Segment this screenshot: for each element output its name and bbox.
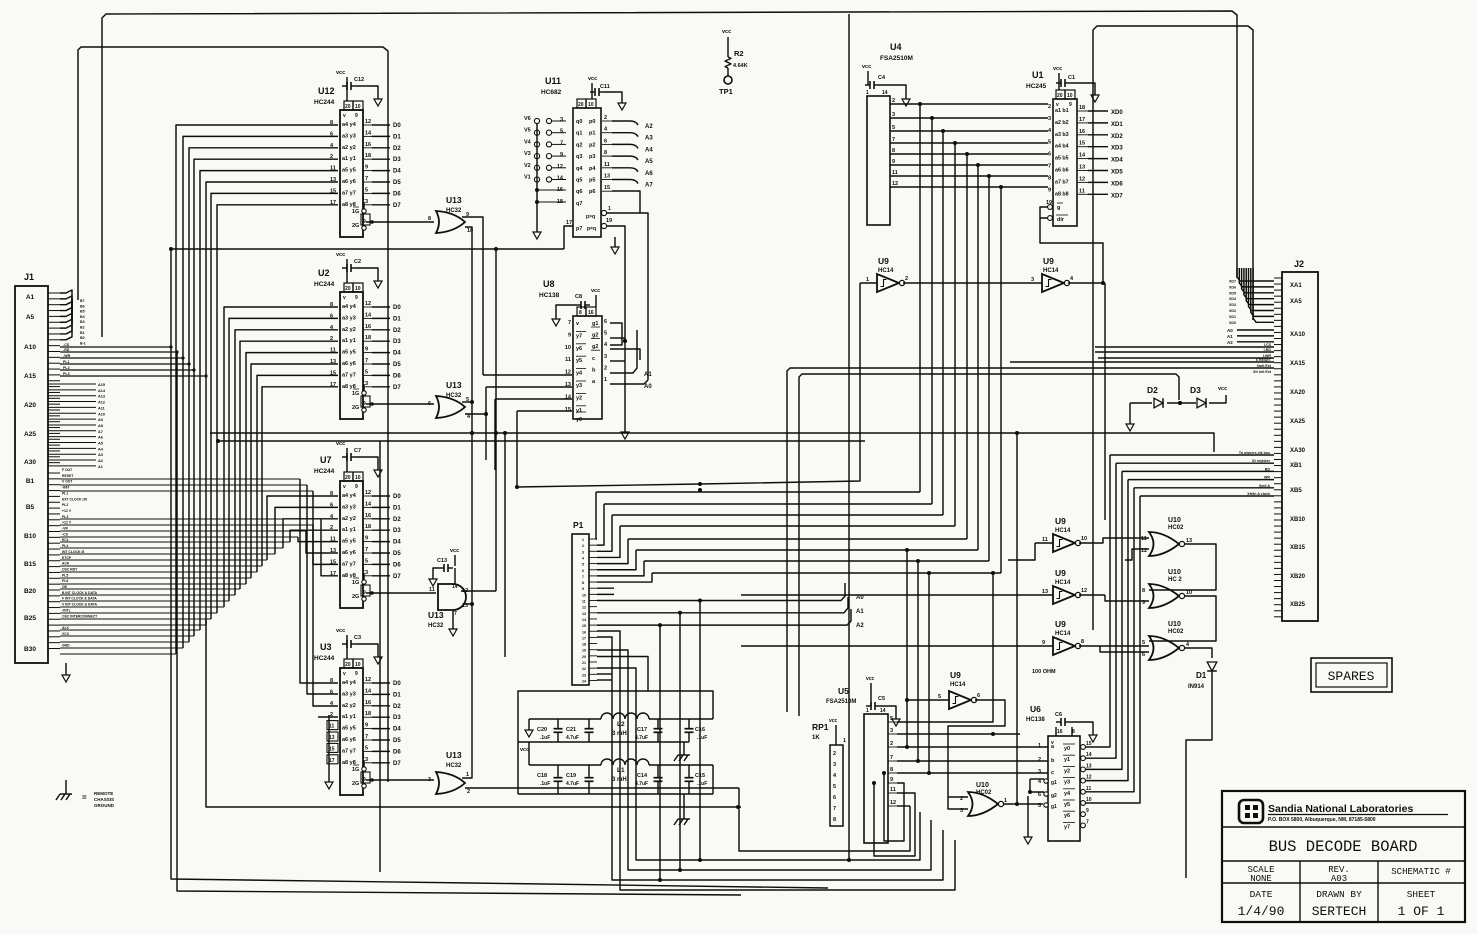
svg-text:18: 18 xyxy=(582,643,586,647)
svg-text:XB25: XB25 xyxy=(1290,602,1306,608)
svg-text:a5 y5: a5 y5 xyxy=(342,168,356,174)
resistor R2 xyxy=(722,29,748,76)
svg-text:10: 10 xyxy=(1081,536,1087,542)
svg-text:D1: D1 xyxy=(393,134,401,140)
svg-text:vcc: vcc xyxy=(336,252,345,258)
svg-text:B0: B0 xyxy=(80,336,85,340)
svg-text:I-CS: I-CS xyxy=(1264,343,1272,347)
svg-text:6: 6 xyxy=(428,401,431,407)
svg-text:D2: D2 xyxy=(393,517,401,523)
svg-text:15: 15 xyxy=(1079,141,1085,147)
U2 output gate wire xyxy=(366,402,434,406)
svg-text:y2: y2 xyxy=(576,395,582,401)
svg-text:18: 18 xyxy=(365,153,371,159)
svg-text:a6 y6: a6 y6 xyxy=(342,737,356,743)
U4 output pins and columns to bottom xyxy=(890,98,1048,573)
svg-text:A0: A0 xyxy=(1227,328,1233,333)
svg-text:1: 1 xyxy=(604,377,607,383)
svg-text:12: 12 xyxy=(365,490,371,496)
svg-text:17: 17 xyxy=(1079,117,1085,123)
svg-text:p4: p4 xyxy=(589,166,596,172)
svg-text:C1: C1 xyxy=(1068,75,1075,81)
svg-text:HC14: HC14 xyxy=(1055,528,1071,534)
svg-text:14: 14 xyxy=(557,176,564,182)
svg-text:a1 y1: a1 y1 xyxy=(342,714,356,720)
svg-text:5: 5 xyxy=(582,563,584,567)
svg-text:1: 1 xyxy=(362,754,365,760)
svg-text:XB10: XB10 xyxy=(1290,517,1306,523)
svg-text:2: 2 xyxy=(604,365,607,371)
svg-text:A03: A03 xyxy=(1331,874,1347,884)
svg-text:SCHEMATIC #: SCHEMATIC # xyxy=(1391,867,1451,877)
svg-text:U11: U11 xyxy=(545,76,561,86)
drawn by cell xyxy=(1312,889,1367,919)
svg-text:U12: U12 xyxy=(318,86,335,96)
svg-text:16: 16 xyxy=(582,630,586,634)
svg-text:14: 14 xyxy=(365,688,372,694)
svg-text:B INT CLOCK & DATA: B INT CLOCK & DATA xyxy=(62,591,98,595)
U11 output wires A2-A7 xyxy=(612,121,653,213)
J2 XB input wires xyxy=(1110,451,1274,496)
svg-text:y5: y5 xyxy=(1064,802,1070,808)
svg-text:D5: D5 xyxy=(393,738,401,744)
svg-text:PL6: PL6 xyxy=(62,579,68,583)
svg-text:U6: U6 xyxy=(1030,704,1041,714)
svg-text:14: 14 xyxy=(1079,153,1086,159)
svg-text:10: 10 xyxy=(1186,590,1192,596)
svg-text:A5: A5 xyxy=(26,314,35,321)
svg-text:1: 1 xyxy=(582,538,584,542)
svg-text:A7: A7 xyxy=(645,183,653,189)
wire top outer loop to J2 xyxy=(102,11,1237,337)
svg-text:1: 1 xyxy=(362,567,365,573)
svg-text:15: 15 xyxy=(604,185,610,191)
svg-text:20: 20 xyxy=(345,662,351,668)
svg-text:5: 5 xyxy=(938,694,941,700)
svg-text:g1: g1 xyxy=(1051,780,1057,786)
svg-text:q3: q3 xyxy=(576,154,582,160)
svg-text:10: 10 xyxy=(1067,93,1073,99)
svg-text:4.7uF: 4.7uF xyxy=(635,781,648,787)
svg-text:A1: A1 xyxy=(644,372,652,378)
svg-text:D3: D3 xyxy=(1190,385,1201,395)
svg-text:V4: V4 xyxy=(524,139,532,145)
svg-text:16: 16 xyxy=(365,142,371,148)
U1 enable pins xyxy=(1040,200,1068,223)
svg-text:y4: y4 xyxy=(1064,791,1071,797)
U3 output gate wire xyxy=(366,778,434,782)
svg-text:DRAWN BY: DRAWN BY xyxy=(1316,889,1362,900)
svg-text:q2: q2 xyxy=(576,142,582,148)
svg-text:y1: y1 xyxy=(1064,757,1070,763)
svg-text:8: 8 xyxy=(890,767,893,773)
svg-text:a7 y7: a7 y7 xyxy=(342,561,356,567)
svg-text:17: 17 xyxy=(329,758,335,764)
svg-text:22: 22 xyxy=(582,667,586,671)
svg-text:D2: D2 xyxy=(393,146,401,152)
svg-text:C17: C17 xyxy=(637,727,647,733)
J1 B-row tiny net labels xyxy=(62,468,98,648)
svg-text:U10: U10 xyxy=(1168,517,1181,524)
filter feed wires xyxy=(518,691,713,794)
svg-text:8: 8 xyxy=(892,148,895,154)
svg-text:17: 17 xyxy=(566,220,572,226)
svg-text:NONE: NONE xyxy=(1250,874,1272,884)
svg-text:5: 5 xyxy=(833,784,836,790)
svg-text:C12: C12 xyxy=(354,77,364,83)
svg-text:C6: C6 xyxy=(1055,712,1062,718)
svg-text:6: 6 xyxy=(833,795,836,801)
svg-text:11: 11 xyxy=(329,724,335,730)
svg-text:1: 1 xyxy=(866,277,869,283)
svg-text:.1uF: .1uF xyxy=(540,735,550,741)
svg-text:D1: D1 xyxy=(393,505,401,511)
diode D2 xyxy=(1126,385,1163,431)
svg-text:q5: q5 xyxy=(576,178,582,184)
svg-text:9: 9 xyxy=(1069,102,1072,108)
svg-text:a5 b5: a5 b5 xyxy=(1055,156,1069,162)
svg-text:A1: A1 xyxy=(856,609,864,615)
connector J1 xyxy=(15,272,48,663)
U12 input staircase xyxy=(176,125,338,654)
svg-text:A2: A2 xyxy=(1227,340,1233,345)
vcc rail xyxy=(518,742,690,765)
U10 second out wire xyxy=(1149,596,1216,641)
svg-text:A0: A0 xyxy=(644,384,652,390)
svg-text:1K: 1K xyxy=(812,735,820,741)
svg-text:U5: U5 xyxy=(838,686,849,696)
svg-text:OSC INTERCONNECT: OSC INTERCONNECT xyxy=(62,614,98,618)
svg-text:13: 13 xyxy=(1079,165,1085,171)
svg-text:XA5: XA5 xyxy=(1290,299,1302,305)
svg-text:9: 9 xyxy=(1042,640,1045,646)
svg-text:20: 20 xyxy=(345,286,351,292)
svg-text:A5: A5 xyxy=(98,442,103,446)
and-gate U13 third xyxy=(428,548,468,636)
diode D1 IN914 xyxy=(1186,662,1217,878)
svg-text:12: 12 xyxy=(365,119,371,125)
svg-text:vcc: vcc xyxy=(866,676,875,682)
svg-text:3: 3 xyxy=(1038,769,1041,775)
svg-text:a7 y7: a7 y7 xyxy=(342,190,356,196)
svg-text:HC14: HC14 xyxy=(950,682,966,688)
svg-text:D7: D7 xyxy=(393,203,401,209)
svg-text:y0: y0 xyxy=(576,417,582,423)
svg-text:XA10: XA10 xyxy=(1290,332,1306,338)
svg-text:8: 8 xyxy=(1081,639,1084,645)
svg-text:vcc: vcc xyxy=(1053,66,1062,72)
svg-text:11: 11 xyxy=(1079,188,1085,194)
P1 lower pin wires to loops xyxy=(597,601,955,891)
svg-text:D5: D5 xyxy=(393,180,401,186)
wire top inner loop to U12 column xyxy=(78,47,388,782)
svg-text:9: 9 xyxy=(363,590,366,596)
svg-text:D6: D6 xyxy=(393,191,401,197)
svg-text:5: 5 xyxy=(604,331,607,337)
U9 fifth wires xyxy=(905,698,1005,809)
svg-text:9: 9 xyxy=(1048,187,1051,193)
svg-text:U10: U10 xyxy=(976,782,989,789)
U7 input staircase xyxy=(267,496,338,576)
svg-text:5: 5 xyxy=(1038,803,1041,809)
svg-text:HC14: HC14 xyxy=(878,268,894,274)
svg-text:1: 1 xyxy=(1004,798,1007,804)
svg-text:a5 y5: a5 y5 xyxy=(342,539,356,545)
inverter U9 pins9-8 xyxy=(1042,619,1084,655)
svg-text:A11: A11 xyxy=(98,406,105,410)
svg-text:HC32: HC32 xyxy=(428,623,444,629)
resistor-pack RP1 xyxy=(812,718,846,826)
svg-text:6: 6 xyxy=(1142,652,1145,658)
svg-text:17: 17 xyxy=(582,636,586,640)
wire J1 control rows into trunk xyxy=(60,343,208,378)
svg-text:A8: A8 xyxy=(98,424,103,428)
svg-text:XD4: XD4 xyxy=(1229,297,1236,301)
nor-gate U10 pins8-9-10 xyxy=(1142,569,1192,608)
svg-text:1: 1 xyxy=(608,206,611,212)
wire long vertical x496 xyxy=(494,247,498,591)
svg-text:vcc: vcc xyxy=(336,70,345,76)
svg-text:ACK: ACK xyxy=(62,562,70,566)
svg-text:SHEET: SHEET xyxy=(1407,889,1436,900)
svg-text:HC 2: HC 2 xyxy=(1168,577,1182,583)
svg-text:C18: C18 xyxy=(537,773,547,779)
svg-text:HC244: HC244 xyxy=(314,468,335,475)
svg-text:11: 11 xyxy=(565,357,571,363)
svg-text:6: 6 xyxy=(604,138,607,144)
svg-text:A14: A14 xyxy=(98,389,106,393)
svg-text:18: 18 xyxy=(365,711,371,717)
svg-text:D6: D6 xyxy=(393,562,401,568)
svg-text:=: = xyxy=(82,793,87,802)
svg-text:14: 14 xyxy=(365,130,372,136)
svg-text:A10: A10 xyxy=(98,412,105,416)
svg-text:11: 11 xyxy=(1086,786,1092,792)
capacitor C19 xyxy=(566,765,594,794)
J1 pin stubs xyxy=(48,293,60,649)
svg-text:14: 14 xyxy=(1086,752,1092,758)
svg-text:IN914: IN914 xyxy=(1188,684,1205,690)
svg-text:-CS: -CS xyxy=(62,532,69,536)
svg-text:B6: B6 xyxy=(80,304,85,308)
svg-text:14: 14 xyxy=(882,90,888,96)
U3 boxed pin ground xyxy=(325,715,333,789)
svg-text:.1uF: .1uF xyxy=(697,781,707,787)
svg-text:2: 2 xyxy=(892,98,895,104)
svg-text:V6: V6 xyxy=(524,116,531,122)
U11 compare outputs xyxy=(564,206,648,380)
svg-text:1: 1 xyxy=(866,708,869,714)
U9 first wires xyxy=(517,283,1042,487)
resistor-network U5 FSA2510M xyxy=(826,676,900,843)
svg-text:A6: A6 xyxy=(645,171,653,177)
svg-text:OE: OE xyxy=(62,585,68,589)
svg-text:y7: y7 xyxy=(576,333,582,339)
svg-text:U7: U7 xyxy=(320,455,332,465)
svg-text:XB20: XB20 xyxy=(1290,574,1306,580)
svg-text:A15: A15 xyxy=(98,383,105,387)
svg-text:y5: y5 xyxy=(576,358,582,364)
svg-text:3: 3 xyxy=(365,757,368,763)
svg-text:Xfr/In A clock: Xfr/In A clock xyxy=(1247,492,1270,496)
svg-text:8: 8 xyxy=(579,310,582,316)
svg-text:vcc: vcc xyxy=(520,747,529,753)
svg-text:16: 16 xyxy=(1079,129,1085,135)
connector J2 xyxy=(1282,259,1318,621)
sandia logo xyxy=(1239,800,1263,823)
svg-text:-INIT: -INIT xyxy=(62,486,70,490)
svg-text:a3 b3: a3 b3 xyxy=(1055,132,1069,138)
svg-text:1: 1 xyxy=(466,772,469,778)
svg-text:12: 12 xyxy=(892,181,898,187)
100 OHM label xyxy=(1032,669,1056,675)
capacitor C21 xyxy=(566,719,594,742)
svg-text:A20: A20 xyxy=(24,402,36,409)
svg-text:12: 12 xyxy=(365,677,371,683)
svg-text:B5: B5 xyxy=(80,310,85,314)
svg-text:vcc: vcc xyxy=(336,441,345,447)
svg-text:D4: D4 xyxy=(393,169,401,175)
svg-text:y7: y7 xyxy=(1064,824,1070,830)
capacitor C15 xyxy=(685,765,708,794)
svg-text:V1: V1 xyxy=(524,175,531,181)
svg-text:XA20: XA20 xyxy=(1290,390,1306,396)
svg-text:7: 7 xyxy=(568,320,571,326)
svg-text:D1: D1 xyxy=(393,692,401,698)
svg-text:7: 7 xyxy=(890,755,893,761)
svg-text:HC138: HC138 xyxy=(539,292,560,299)
testpoint TP1 xyxy=(719,76,733,96)
svg-text:XD5: XD5 xyxy=(1111,170,1123,176)
U11 V inputs xyxy=(524,116,566,239)
svg-text:y6: y6 xyxy=(576,346,582,352)
svg-text:a7 y7: a7 y7 xyxy=(342,372,356,378)
svg-text:1/4/90: 1/4/90 xyxy=(1238,904,1285,919)
svg-text:4.64K: 4.64K xyxy=(733,63,748,69)
svg-text:C19: C19 xyxy=(566,773,576,779)
svg-text:XB5: XB5 xyxy=(1290,488,1302,494)
nor-gate U10 pins2-3-1 xyxy=(960,782,1007,816)
svg-text:16: 16 xyxy=(365,513,371,519)
svg-text:a2 y2: a2 y2 xyxy=(342,145,356,151)
svg-text:a6 y6: a6 y6 xyxy=(342,361,356,367)
J1 A-bundle tiny labels xyxy=(80,299,86,345)
svg-text:A25: A25 xyxy=(24,431,36,438)
svg-text:X RESET: X RESET xyxy=(1256,358,1272,362)
svg-text:U1: U1 xyxy=(1032,70,1044,80)
svg-text:q7: q7 xyxy=(576,201,582,207)
buffer U3 HC244 xyxy=(314,628,401,795)
svg-text:a4 y4: a4 y4 xyxy=(342,680,357,686)
svg-text:20: 20 xyxy=(582,655,586,659)
svg-text:2: 2 xyxy=(604,115,607,121)
svg-text:D7: D7 xyxy=(393,385,401,391)
wire long horizontal U11 pin17 xyxy=(169,247,828,888)
svg-text:5: 5 xyxy=(365,745,368,751)
capacitor C14 xyxy=(635,765,663,794)
svg-text:1: 1 xyxy=(843,738,846,744)
svg-text:6: 6 xyxy=(604,319,607,325)
svg-text:D6: D6 xyxy=(393,373,401,379)
capacitor C17 xyxy=(635,719,663,742)
svg-text:C11: C11 xyxy=(600,84,610,90)
svg-text:18: 18 xyxy=(365,335,371,341)
wire top right loop to J2 fan xyxy=(1093,26,1253,630)
U8 right side wires xyxy=(610,323,652,439)
svg-text:U4: U4 xyxy=(890,42,902,52)
inverter U9 pins13-12 xyxy=(1042,568,1087,604)
svg-text:A2: A2 xyxy=(856,623,864,629)
wire long vertical x505 xyxy=(503,431,507,657)
inductor L2 xyxy=(525,713,713,737)
svg-text:-WR: -WR xyxy=(63,354,71,358)
svg-text:g1: g1 xyxy=(592,321,598,327)
svg-text:2: 2 xyxy=(833,751,836,757)
U10 fourth wires xyxy=(1003,433,1043,806)
filter bottom rail xyxy=(518,794,713,825)
svg-text:SPARES: SPARES xyxy=(1328,669,1375,684)
or-gate U13 fourth xyxy=(428,750,470,795)
svg-text:C5: C5 xyxy=(878,696,885,702)
svg-text:11: 11 xyxy=(892,170,898,176)
svg-text:a3 y3: a3 y3 xyxy=(342,315,356,321)
svg-text:4: 4 xyxy=(582,556,584,560)
svg-text:PL1: PL1 xyxy=(62,491,68,495)
svg-text:A3: A3 xyxy=(645,136,653,142)
svg-text:B-1: B-1 xyxy=(80,341,86,345)
svg-text:9: 9 xyxy=(365,723,368,729)
svg-text:XA25: XA25 xyxy=(1290,419,1306,425)
svg-text:q1: q1 xyxy=(576,131,582,137)
svg-text:B15: B15 xyxy=(24,561,36,568)
svg-text:9: 9 xyxy=(890,777,893,783)
svg-text:B5: B5 xyxy=(26,504,35,511)
U3 input staircase (top rows) xyxy=(300,479,338,717)
svg-text:9: 9 xyxy=(355,113,358,119)
svg-text:A10: A10 xyxy=(24,344,36,351)
svg-text:HC32: HC32 xyxy=(446,763,462,769)
svg-text:1G: 1G xyxy=(352,391,359,397)
J2 pin ticks xyxy=(1274,278,1282,617)
U8 left input wires xyxy=(483,375,572,489)
svg-text:2: 2 xyxy=(960,796,963,802)
svg-text:B3: B3 xyxy=(80,320,85,324)
svg-text:1 OF 1: 1 OF 1 xyxy=(1398,904,1445,919)
U13 first output wires xyxy=(462,217,483,435)
svg-text:v: v xyxy=(343,484,346,490)
svg-text:WR: WR xyxy=(1264,476,1270,480)
svg-text:a5 y5: a5 y5 xyxy=(342,350,356,356)
svg-text:VCC: VCC xyxy=(62,632,70,636)
svg-text:7: 7 xyxy=(365,176,368,182)
svg-text:2: 2 xyxy=(1038,757,1041,763)
svg-text:a1 y1: a1 y1 xyxy=(342,338,356,344)
capacitor C20 xyxy=(537,719,563,742)
svg-text:XD2: XD2 xyxy=(1111,134,1123,140)
date cell xyxy=(1238,889,1285,919)
svg-text:D5: D5 xyxy=(393,362,401,368)
svg-text:p>q: p>q xyxy=(586,214,595,220)
svg-text:Sandia National Laboratories: Sandia National Laboratories xyxy=(1268,803,1413,815)
svg-text:3: 3 xyxy=(365,199,368,205)
svg-text:XD0: XD0 xyxy=(1111,110,1123,116)
U7 output gate wire xyxy=(366,591,436,595)
svg-text:4.7uF: 4.7uF xyxy=(566,735,579,741)
svg-text:10: 10 xyxy=(565,345,571,351)
svg-text:14: 14 xyxy=(365,501,372,507)
svg-text:F OUT: F OUT xyxy=(62,468,73,472)
svg-text:D7: D7 xyxy=(393,761,401,767)
